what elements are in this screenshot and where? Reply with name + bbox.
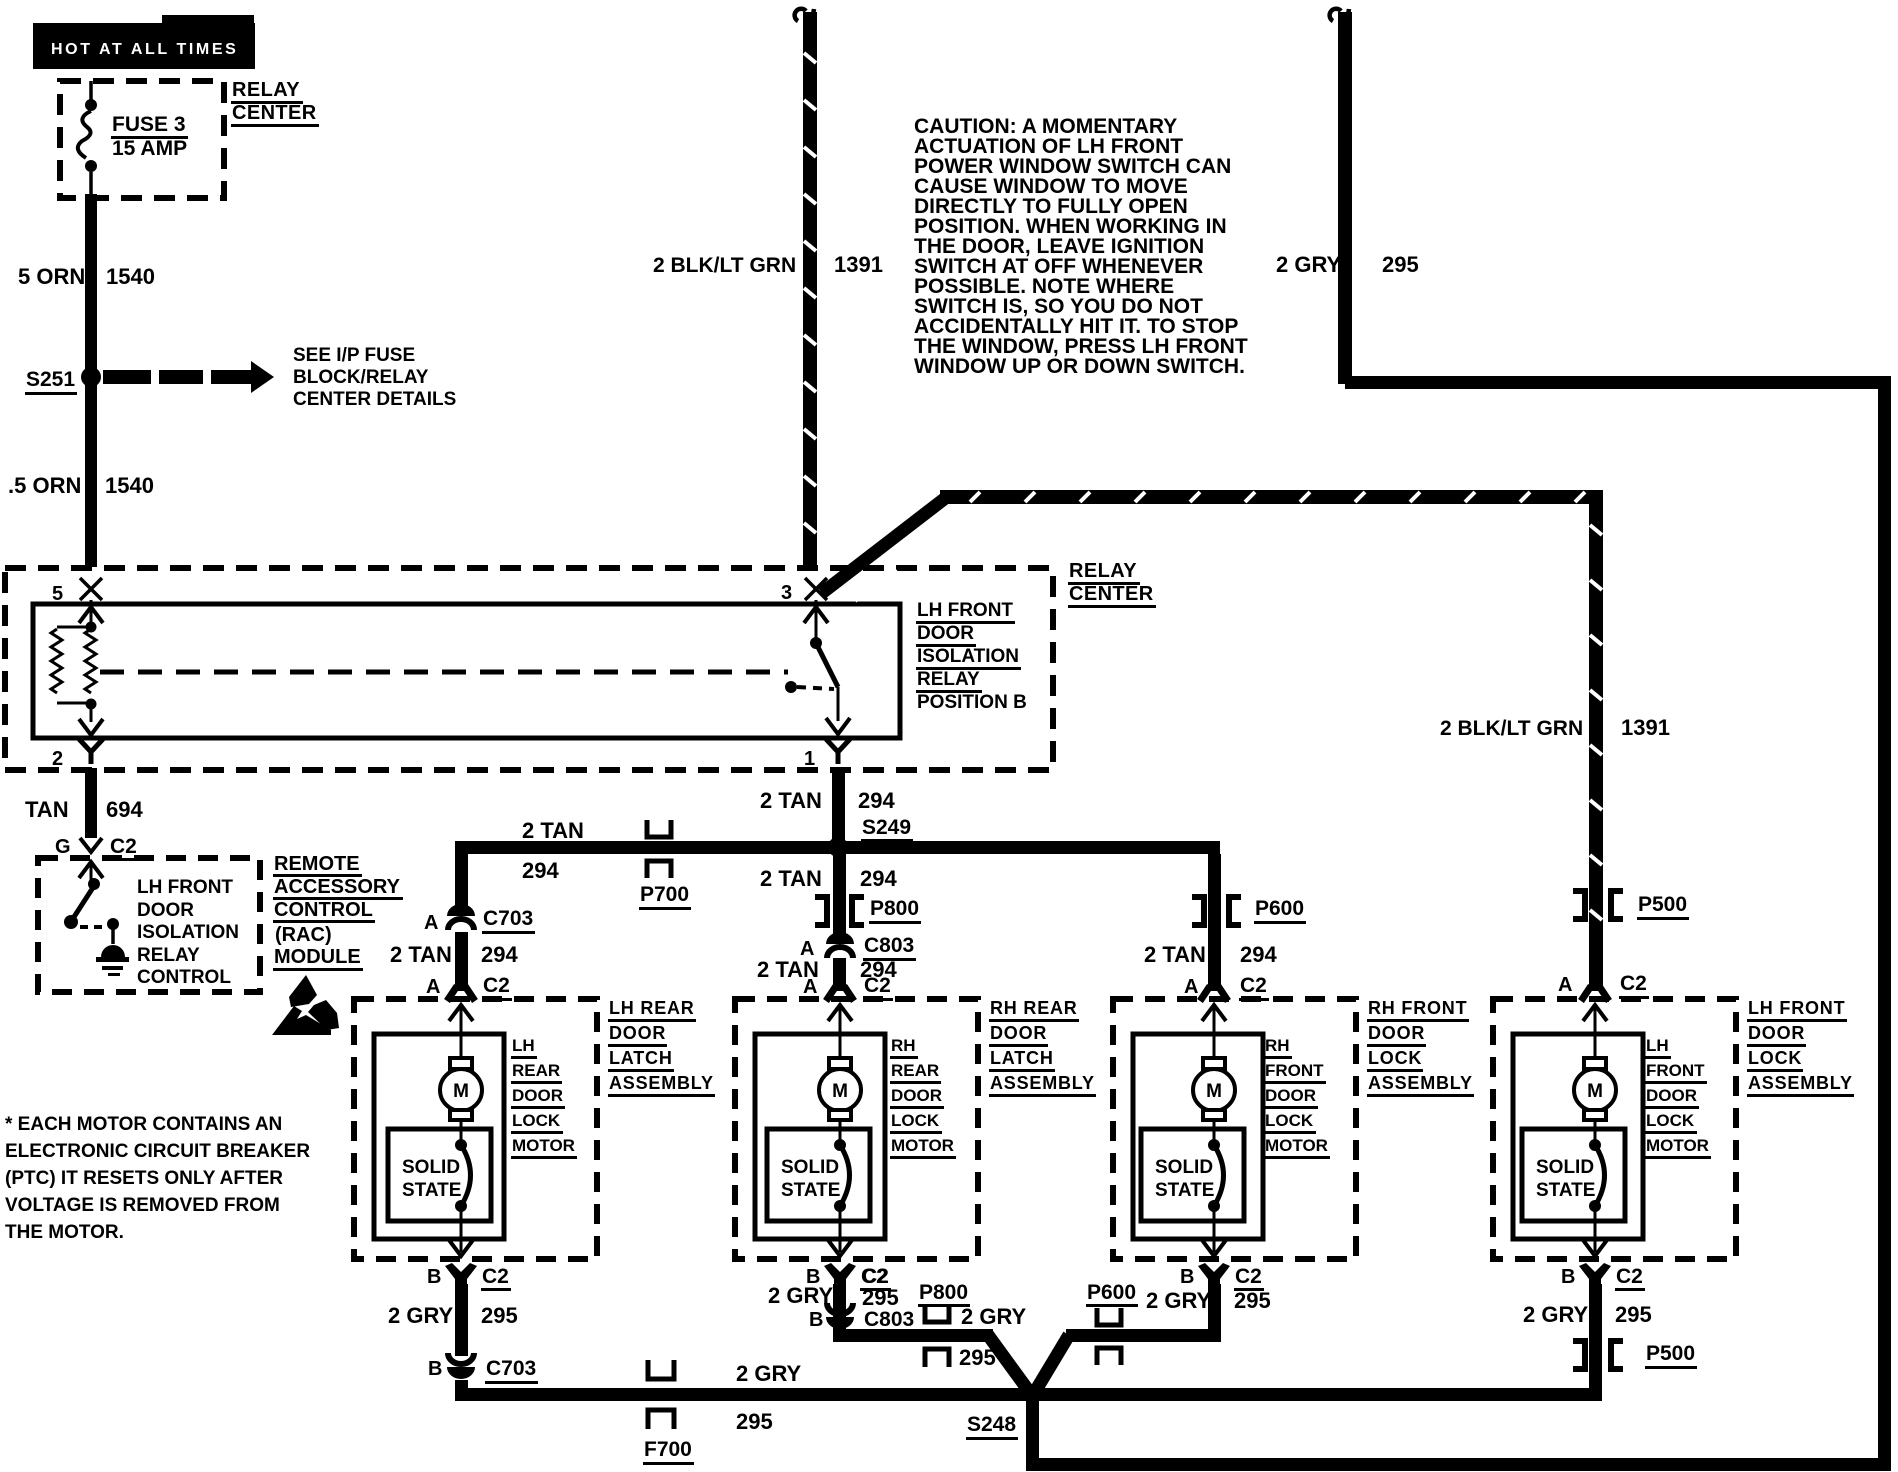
svg-text:.5 ORN: .5 ORN xyxy=(8,473,81,498)
bus: 2 TAN 294 distribution to door latch assemblies xyxy=(455,841,1220,854)
solid state circuit breaker - RH front door lock xyxy=(1141,1129,1244,1221)
relay coil xyxy=(86,622,97,633)
svg-text:295: 295 xyxy=(1615,1302,1652,1327)
svg-text:2 TAN: 2 TAN xyxy=(1144,942,1206,967)
svg-text:FRONT: FRONT xyxy=(1265,1061,1324,1080)
svg-text:2 TAN: 2 TAN xyxy=(390,942,452,967)
svg-text:ASSEMBLY: ASSEMBLY xyxy=(1748,1073,1853,1093)
bus: 2 GRY return along bottom edge xyxy=(1026,1458,1891,1471)
svg-text:LOCK: LOCK xyxy=(1265,1111,1314,1130)
solid state circuit breaker - LH front door lock xyxy=(1522,1129,1625,1221)
svg-text:2 BLK/LT GRN: 2 BLK/LT GRN xyxy=(1440,717,1583,740)
svg-text:3: 3 xyxy=(781,582,792,604)
wire: 2 GRY from RH rear motor to S248 xyxy=(833,1284,846,1332)
svg-text:HOT AT ALL TIMES: HOT AT ALL TIMES xyxy=(51,41,238,58)
svg-text:C2: C2 xyxy=(1620,972,1647,995)
svg-text:LH: LH xyxy=(1646,1036,1669,1055)
dashed arrow to I/P fuse block details xyxy=(103,370,151,384)
svg-text:SOLID: SOLID xyxy=(402,1157,460,1178)
svg-text:295: 295 xyxy=(959,1345,996,1370)
svg-text:STATE: STATE xyxy=(402,1180,461,1201)
svg-text:295: 295 xyxy=(1234,1288,1271,1313)
svg-text:G: G xyxy=(55,836,71,858)
svg-text:C2: C2 xyxy=(110,835,137,858)
solid state circuit breaker - RH rear door latch xyxy=(767,1129,870,1221)
splice S251 xyxy=(81,367,101,387)
svg-text:B: B xyxy=(809,1309,823,1331)
svg-text:694: 694 xyxy=(106,797,143,822)
svg-text:C2: C2 xyxy=(482,1265,509,1288)
svg-text:C703: C703 xyxy=(486,1357,536,1380)
svg-text:RH REAR: RH REAR xyxy=(990,998,1078,1018)
svg-text:C2: C2 xyxy=(1240,974,1267,997)
wire: 2 GRY from LH front motor xyxy=(1589,1284,1602,1401)
svg-text:295: 295 xyxy=(481,1303,518,1328)
bus: 2 GRY 295 return to splice S248 xyxy=(455,1388,1601,1401)
LH rear door latch housing xyxy=(374,1034,504,1239)
wire: 2 GRY right edge vertical return xyxy=(1878,376,1891,1471)
svg-text:MODULE: MODULE xyxy=(274,946,361,968)
svg-text:LH FRONT: LH FRONT xyxy=(137,877,233,898)
fuse F3 15A symbol xyxy=(89,81,93,100)
svg-text:LOCK: LOCK xyxy=(1368,1048,1422,1068)
connector pass-through P700 (bottom) xyxy=(648,1360,674,1379)
svg-text:CONTROL: CONTROL xyxy=(274,899,373,921)
svg-text:LATCH: LATCH xyxy=(990,1048,1054,1068)
svg-text:2 BLK/LT GRN: 2 BLK/LT GRN xyxy=(653,254,796,277)
svg-text:P500: P500 xyxy=(1638,893,1687,916)
wire: 2 GRY horizontal run to right edge xyxy=(1345,376,1891,389)
svg-text:5: 5 xyxy=(52,583,63,605)
svg-text:CONTROL: CONTROL xyxy=(137,967,231,988)
wire: TAN 694 from relay pin 2 xyxy=(85,768,97,838)
svg-text:STATE: STATE xyxy=(1536,1180,1595,1201)
svg-text:P600: P600 xyxy=(1087,1281,1136,1304)
RH rear door latch assembly dashed box xyxy=(735,999,978,1259)
svg-text:ISOLATION: ISOLATION xyxy=(917,646,1019,667)
wire: 2 GRY 295 from window switch (right top) xyxy=(1330,9,1341,21)
relay switch contact xyxy=(815,600,818,640)
svg-text:1540: 1540 xyxy=(105,473,154,498)
motor M - RH rear door latch xyxy=(829,1058,851,1069)
svg-text:ASSEMBLY: ASSEMBLY xyxy=(990,1073,1095,1093)
wire: 2 TAN 294 from relay pin 1 to splice S249 xyxy=(832,768,845,847)
svg-text:P500: P500 xyxy=(1646,1342,1695,1365)
svg-text:MOTOR: MOTOR xyxy=(891,1136,954,1155)
svg-text:2 GRY: 2 GRY xyxy=(1276,252,1342,277)
svg-text:DOOR: DOOR xyxy=(891,1086,942,1105)
svg-text:STATE: STATE xyxy=(781,1180,840,1201)
svg-text:B: B xyxy=(427,1266,441,1288)
motor M - LH front door lock xyxy=(1584,1058,1606,1069)
svg-text:WINDOW UP OR DOWN SWITCH.: WINDOW UP OR DOWN SWITCH. xyxy=(914,355,1245,378)
svg-text:MOTOR: MOTOR xyxy=(1265,1136,1328,1155)
splice S248 xyxy=(1023,1384,1041,1402)
svg-text:LOCK: LOCK xyxy=(891,1111,940,1130)
svg-text:RH FRONT: RH FRONT xyxy=(1368,998,1467,1018)
connector pass-through P500 (bottom) xyxy=(1573,1341,1585,1369)
svg-text:FUSE 3: FUSE 3 xyxy=(112,113,186,136)
svg-text:TAN: TAN xyxy=(25,797,69,822)
RH front door lock assembly dashed box xyxy=(1113,999,1356,1259)
connector pass-through P600 (top) xyxy=(1192,897,1204,925)
relay internal dashed actuation line xyxy=(100,670,788,675)
wire: 2 TAN drop to C703 (LH rear) xyxy=(455,854,468,906)
driver: LH front door isolation relay control switch to ground xyxy=(79,862,103,878)
svg-text:2 GRY: 2 GRY xyxy=(961,1304,1027,1329)
svg-text:DOOR: DOOR xyxy=(1748,1023,1805,1043)
svg-text:ASSEMBLY: ASSEMBLY xyxy=(609,1073,714,1093)
relay K: LH front door isolation relay outline xyxy=(33,604,900,738)
svg-text:S251: S251 xyxy=(26,368,75,391)
fuse box (relay center) dashed outline xyxy=(60,81,224,198)
svg-text:2 GRY: 2 GRY xyxy=(1146,1288,1212,1313)
svg-text:294: 294 xyxy=(860,866,897,891)
svg-text:RELAY: RELAY xyxy=(137,945,200,966)
ESD static sensitive symbol xyxy=(289,975,317,1007)
svg-text:A: A xyxy=(426,976,440,998)
svg-text:2 GRY: 2 GRY xyxy=(1523,1302,1589,1327)
svg-text:C2: C2 xyxy=(1235,1265,1262,1288)
LH front door lock housing xyxy=(1513,1034,1643,1239)
LH rear door latch assembly dashed box xyxy=(354,999,597,1259)
svg-text:2 TAN: 2 TAN xyxy=(760,788,822,813)
svg-text:MOTOR: MOTOR xyxy=(1646,1136,1709,1155)
LH rear door latch feed wire xyxy=(449,1005,473,1021)
svg-text:M: M xyxy=(453,1081,469,1102)
svg-text:295: 295 xyxy=(862,1285,899,1310)
svg-text:REAR: REAR xyxy=(891,1061,939,1080)
LH front door lock assembly dashed box xyxy=(1493,999,1736,1259)
svg-text:CENTER: CENTER xyxy=(232,102,317,124)
banner: HOT AT ALL TIMES xyxy=(162,15,254,25)
svg-text:2: 2 xyxy=(52,748,63,770)
connector pass-through P700 (top) xyxy=(647,820,671,837)
RH rear door latch housing xyxy=(755,1034,885,1239)
svg-text:C2: C2 xyxy=(483,974,510,997)
svg-text:1: 1 xyxy=(804,748,815,770)
svg-text:BLOCK/RELAY: BLOCK/RELAY xyxy=(293,367,429,388)
svg-text:STATE: STATE xyxy=(1155,1180,1214,1201)
svg-text:RH: RH xyxy=(891,1036,916,1055)
svg-text:2 TAN: 2 TAN xyxy=(522,818,584,843)
svg-text:A: A xyxy=(1184,976,1198,998)
wire/label 2 TAN 294 below C703 xyxy=(455,932,468,991)
svg-text:15 AMP: 15 AMP xyxy=(112,137,187,160)
svg-text:MOTOR: MOTOR xyxy=(512,1136,575,1155)
svg-text:RELAY: RELAY xyxy=(232,79,300,101)
svg-text:THE MOTOR.: THE MOTOR. xyxy=(5,1222,124,1243)
svg-text:1391: 1391 xyxy=(1621,715,1670,740)
svg-text:RELAY: RELAY xyxy=(917,669,980,690)
svg-text:S249: S249 xyxy=(862,816,911,839)
svg-text:LH: LH xyxy=(512,1036,535,1055)
svg-text:SOLID: SOLID xyxy=(1536,1157,1594,1178)
svg-text:M: M xyxy=(1587,1081,1603,1102)
svg-text:ASSEMBLY: ASSEMBLY xyxy=(1368,1073,1473,1093)
svg-text:2 GRY: 2 GRY xyxy=(768,1283,834,1308)
connector pass-through P500 (top) xyxy=(1573,891,1585,919)
svg-text:RH: RH xyxy=(1265,1036,1290,1055)
svg-text:294: 294 xyxy=(1240,942,1277,967)
svg-text:C2: C2 xyxy=(864,974,891,997)
svg-text:POSITION B: POSITION B xyxy=(917,692,1027,713)
svg-text:294: 294 xyxy=(858,788,895,813)
svg-text:C2: C2 xyxy=(1616,1265,1643,1288)
svg-text:M: M xyxy=(832,1081,848,1102)
svg-text:ELECTRONIC CIRCUIT BREAKER: ELECTRONIC CIRCUIT BREAKER xyxy=(5,1141,310,1162)
svg-text:295: 295 xyxy=(736,1409,773,1434)
svg-text:294: 294 xyxy=(481,942,518,967)
wire: 2 BLK/LT GRN horizontal run (striped) xyxy=(940,490,1602,504)
svg-text:B: B xyxy=(428,1358,442,1380)
svg-text:(PTC) IT RESETS ONLY AFTER: (PTC) IT RESETS ONLY AFTER xyxy=(5,1168,283,1189)
svg-text:P600: P600 xyxy=(1255,897,1304,920)
svg-text:2 TAN: 2 TAN xyxy=(760,866,822,891)
RAC module dashed box (LH front door isolation relay control) xyxy=(38,858,260,992)
motor M - LH rear door latch xyxy=(450,1058,472,1069)
wire: 5 ORN 1540 battery feed xyxy=(85,194,97,567)
svg-text:DOOR: DOOR xyxy=(1646,1086,1697,1105)
svg-text:SOLID: SOLID xyxy=(1155,1157,1213,1178)
svg-text:P800: P800 xyxy=(870,897,919,920)
svg-text:LH FRONT: LH FRONT xyxy=(1748,998,1845,1018)
relay center outer dashed box xyxy=(5,568,1053,770)
wire: 2 GRY from RH front motor to S248 xyxy=(1208,1284,1221,1335)
svg-text:REAR: REAR xyxy=(512,1061,560,1080)
svg-text:LOCK: LOCK xyxy=(1748,1048,1802,1068)
svg-text:1391: 1391 xyxy=(834,252,883,277)
svg-text:LATCH: LATCH xyxy=(609,1048,673,1068)
svg-text:C803: C803 xyxy=(864,934,914,957)
RH front door lock feed wire xyxy=(1202,1005,1226,1021)
svg-text:(RAC): (RAC) xyxy=(275,924,332,946)
svg-text:* EACH MOTOR CONTAINS AN: * EACH MOTOR CONTAINS AN xyxy=(5,1114,282,1135)
svg-text:295: 295 xyxy=(1382,252,1419,277)
svg-text:DOOR: DOOR xyxy=(990,1023,1047,1043)
svg-text:B: B xyxy=(1561,1266,1575,1288)
RH front door lock housing xyxy=(1133,1034,1263,1239)
wire: 2 TAN drop from S249 to C803 (RH rear) xyxy=(833,854,846,939)
svg-text:LH REAR: LH REAR xyxy=(609,998,695,1018)
svg-text:B: B xyxy=(1180,1266,1194,1288)
svg-text:RELAY: RELAY xyxy=(1069,560,1137,582)
svg-text:C703: C703 xyxy=(483,907,533,930)
LH front door lock feed wire xyxy=(1583,1005,1607,1021)
svg-text:ISOLATION: ISOLATION xyxy=(137,922,239,943)
RH rear door latch feed wire xyxy=(828,1005,852,1021)
svg-text:DOOR: DOOR xyxy=(609,1023,666,1043)
svg-text:CENTER DETAILS: CENTER DETAILS xyxy=(293,389,456,410)
svg-text:294: 294 xyxy=(522,858,559,883)
svg-text:DOOR: DOOR xyxy=(917,623,974,644)
svg-text:DOOR: DOOR xyxy=(512,1086,563,1105)
svg-text:LH FRONT: LH FRONT xyxy=(917,600,1013,621)
svg-text:CENTER: CENTER xyxy=(1069,583,1154,605)
svg-text:VOLTAGE IS REMOVED FROM: VOLTAGE IS REMOVED FROM xyxy=(5,1195,280,1216)
svg-text:LOCK: LOCK xyxy=(1646,1111,1695,1130)
connector pass-through P800 (top) xyxy=(815,897,827,925)
svg-text:2 GRY: 2 GRY xyxy=(388,1303,454,1328)
svg-text:P800: P800 xyxy=(919,1281,968,1304)
svg-text:DOOR: DOOR xyxy=(1368,1023,1425,1043)
wire: striped diagonal from relay pin 3 to BLK/LT GRN run xyxy=(822,496,948,593)
wire: 2 BLK/LT GRN vertical drop to LH front door (striped) xyxy=(1589,490,1603,991)
svg-text:F700: F700 xyxy=(644,1438,692,1461)
solid state circuit breaker - LH rear door latch xyxy=(388,1129,491,1221)
svg-text:A: A xyxy=(424,912,438,934)
wire: 2 BLK/LT GRN 1391 from LH front power window switch (striped) xyxy=(795,9,806,21)
svg-text:A: A xyxy=(1558,974,1572,996)
svg-text:SOLID: SOLID xyxy=(781,1157,839,1178)
wire: S248 down leg xyxy=(1026,1400,1039,1458)
svg-text:1540: 1540 xyxy=(106,264,155,289)
splice S249 xyxy=(828,837,848,857)
svg-text:C803: C803 xyxy=(864,1308,914,1331)
svg-text:ACCESSORY: ACCESSORY xyxy=(274,876,401,898)
svg-text:S248: S248 xyxy=(967,1413,1016,1436)
svg-text:FRONT: FRONT xyxy=(1646,1061,1705,1080)
wire: 2 TAN drop from bus to RH front xyxy=(1208,854,1221,991)
svg-text:REMOTE: REMOTE xyxy=(274,853,360,875)
svg-text:DOOR: DOOR xyxy=(137,900,194,921)
svg-text:P700: P700 xyxy=(640,883,689,906)
svg-text:2 GRY: 2 GRY xyxy=(736,1361,802,1386)
svg-text:5 ORN: 5 ORN xyxy=(18,264,85,289)
svg-text:LOCK: LOCK xyxy=(512,1111,561,1130)
svg-text:SEE I/P FUSE: SEE I/P FUSE xyxy=(293,345,415,366)
svg-text:A: A xyxy=(803,976,817,998)
wire: 2 GRY 295 from LH rear motor xyxy=(455,1284,468,1356)
motor M - RH front door lock xyxy=(1203,1058,1225,1069)
svg-text:DOOR: DOOR xyxy=(1265,1086,1316,1105)
svg-text:M: M xyxy=(1206,1081,1222,1102)
